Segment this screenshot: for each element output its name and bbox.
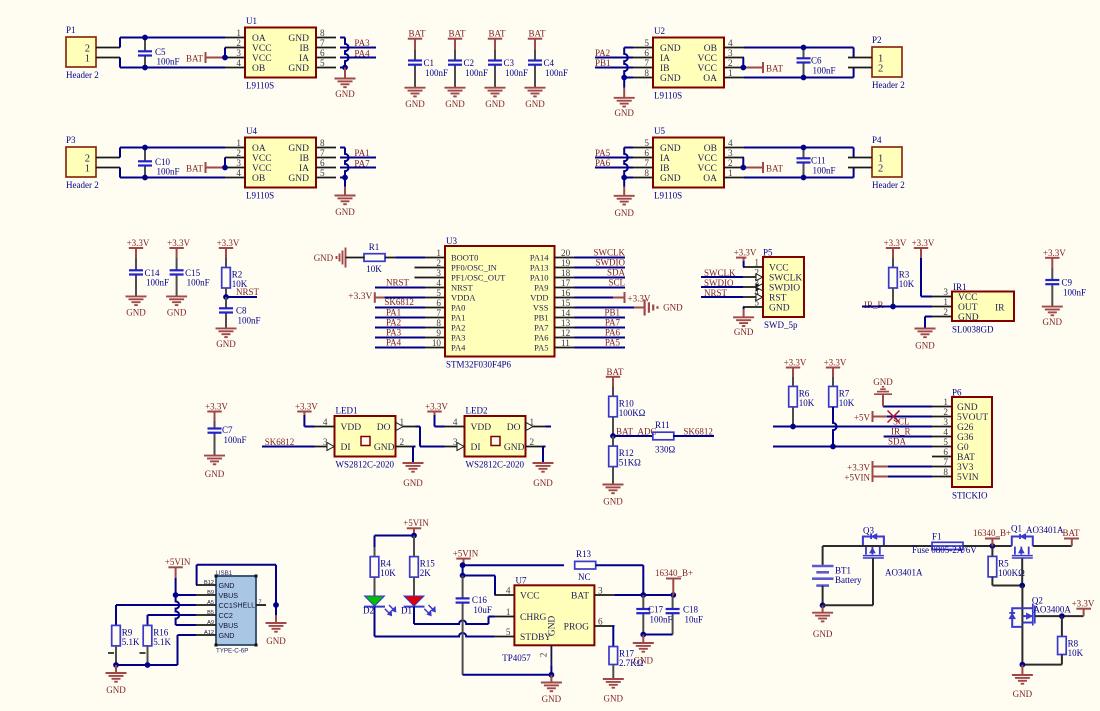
- svg-text:16: 16: [561, 288, 571, 298]
- svg-text:13: 13: [561, 318, 571, 328]
- svg-text:1: 1: [236, 138, 241, 148]
- svg-text:GND: GND: [660, 44, 681, 54]
- svg-text:5.1K: 5.1K: [122, 637, 140, 647]
- svg-text:NRST: NRST: [451, 283, 474, 293]
- svg-text:10K: 10K: [380, 568, 396, 578]
- svg-text:SDA: SDA: [888, 437, 907, 447]
- IC U5 L9110S: [633, 126, 744, 201]
- svg-text:G26: G26: [957, 423, 974, 433]
- svg-text:SL0038GD: SL0038GD: [952, 325, 994, 335]
- svg-text:GND: GND: [660, 74, 681, 84]
- svg-text:3: 3: [236, 48, 241, 58]
- svg-text:+5VIN: +5VIN: [403, 518, 429, 528]
- svg-text:PA2: PA2: [451, 323, 465, 333]
- connector P1 Header 2: [66, 25, 120, 80]
- svg-text:BAT: BAT: [766, 164, 784, 174]
- svg-text:4: 4: [728, 138, 733, 148]
- svg-text:VCC: VCC: [769, 264, 789, 274]
- svg-text:GND: GND: [335, 89, 355, 99]
- net label PA4: [340, 49, 376, 59]
- transistor Q1 AO3401A: [1011, 524, 1064, 559]
- junction: [621, 175, 627, 181]
- IC U3 STM32F030F4P6: [415, 236, 575, 370]
- svg-text:VDDA: VDDA: [451, 293, 476, 303]
- net label PA6: [595, 158, 633, 168]
- wire LED1 DO to LED2 DI: [416, 427, 445, 447]
- svg-text:100nF: 100nF: [187, 278, 210, 288]
- svg-text:SK6812: SK6812: [384, 297, 414, 307]
- svg-text:RST: RST: [769, 294, 787, 304]
- svg-text:4: 4: [436, 278, 441, 288]
- svg-text:BAT: BAT: [571, 592, 589, 602]
- svg-text:+3.3V: +3.3V: [425, 402, 448, 412]
- junction: [222, 165, 228, 171]
- svg-text:2: 2: [236, 38, 241, 48]
- ground C8: [216, 328, 237, 349]
- svg-text:2: 2: [943, 307, 948, 317]
- power +3.3V flag LED2: [425, 402, 448, 427]
- svg-text:10uF: 10uF: [473, 605, 492, 615]
- svg-text:U2: U2: [654, 26, 665, 36]
- IC U4 L9110S: [225, 126, 336, 201]
- no-erc dash R9: [108, 652, 114, 654]
- junction: [610, 433, 616, 439]
- svg-text:GND: GND: [873, 377, 893, 387]
- svg-text:IA: IA: [299, 164, 309, 174]
- ground C17 C18: [633, 635, 654, 666]
- svg-text:4: 4: [236, 168, 241, 178]
- svg-text:C3: C3: [504, 58, 515, 68]
- net label PA6 U3 right: [575, 328, 626, 338]
- IC U7 TP4057: [494, 576, 614, 666]
- svg-text:IR_R: IR_R: [891, 427, 911, 437]
- net label SDA U3: [575, 268, 626, 278]
- svg-text:1: 1: [728, 68, 733, 78]
- svg-text:R6: R6: [799, 388, 810, 398]
- svg-text:Q3: Q3: [863, 526, 874, 536]
- junction: [460, 573, 466, 579]
- svg-text:100nF: 100nF: [425, 68, 448, 78]
- svg-text:+3.3V: +3.3V: [912, 238, 935, 248]
- svg-text:BT1: BT1: [835, 566, 851, 576]
- svg-text:2: 2: [530, 437, 535, 447]
- ground C2: [445, 88, 466, 109]
- svg-text:BAT: BAT: [957, 453, 975, 463]
- svg-text:3V3: 3V3: [957, 463, 974, 473]
- power BAT flag C2: [448, 29, 466, 51]
- svg-text:IB: IB: [300, 154, 310, 164]
- capacitor C15: [170, 258, 210, 296]
- svg-text:GND: GND: [769, 304, 790, 314]
- svg-text:GND: GND: [288, 34, 309, 44]
- resistor R15: [410, 536, 436, 597]
- net label SCL U3: [575, 278, 626, 288]
- svg-text:A12: A12: [204, 630, 214, 636]
- svg-text:SDA: SDA: [607, 268, 626, 278]
- svg-text:100nF: 100nF: [465, 68, 488, 78]
- svg-text:+5VIN: +5VIN: [453, 549, 479, 559]
- transistor Q2 AO3400A: [1009, 586, 1071, 665]
- svg-text:PA6: PA6: [534, 333, 548, 343]
- svg-text:GND: GND: [915, 341, 935, 351]
- junction: [640, 632, 646, 638]
- svg-text:DO: DO: [377, 423, 391, 433]
- svg-text:IR1: IR1: [953, 282, 967, 292]
- svg-text:GND: GND: [445, 99, 465, 109]
- junction: [790, 424, 796, 430]
- wire +5VIN to R4: [375, 536, 415, 548]
- svg-text:SWCLK: SWCLK: [769, 274, 802, 284]
- resistor R3: [889, 258, 915, 307]
- svg-text:L9110S: L9110S: [654, 191, 682, 201]
- svg-text:7: 7: [320, 38, 325, 48]
- ground C1: [405, 88, 426, 109]
- svg-text:16340_B+: 16340_B+: [655, 568, 693, 578]
- svg-text:+3.3V: +3.3V: [167, 238, 190, 248]
- svg-text:R7: R7: [839, 388, 850, 398]
- power +3.3V flag R7: [824, 358, 847, 378]
- resistor R7: [829, 377, 855, 447]
- svg-text:+5VIN: +5VIN: [165, 557, 191, 567]
- svg-text:U4: U4: [246, 126, 257, 136]
- svg-text:G36: G36: [957, 433, 974, 443]
- svg-text:Header 2: Header 2: [66, 180, 99, 190]
- wire U7 pin2 to GND: [463, 665, 552, 675]
- svg-text:VCC: VCC: [252, 54, 272, 64]
- svg-text:6: 6: [436, 298, 441, 308]
- svg-text:SWDIO: SWDIO: [596, 258, 626, 268]
- wire Q2 gate to R8: [1035, 615, 1084, 617]
- svg-text:2: 2: [400, 437, 405, 447]
- capacitor C3: [488, 50, 528, 88]
- LED D2: [363, 596, 396, 616]
- power BAT flag U1: [186, 52, 225, 64]
- svg-text:1: 1: [943, 397, 948, 407]
- svg-text:L9110S: L9110S: [246, 191, 274, 201]
- svg-text:VCC: VCC: [252, 44, 272, 54]
- svg-text:5: 5: [644, 138, 649, 148]
- svg-text:100KΩ: 100KΩ: [998, 568, 1025, 578]
- net label PB1: [595, 58, 633, 68]
- svg-text:GND: GND: [485, 99, 505, 109]
- svg-text:4: 4: [236, 58, 241, 68]
- svg-text:100nF: 100nF: [505, 68, 528, 78]
- net label SWDIO P5: [701, 278, 743, 288]
- svg-text:PF0/OSC_IN: PF0/OSC_IN: [451, 263, 497, 273]
- ground C4: [525, 88, 546, 109]
- svg-text:4: 4: [943, 427, 948, 437]
- svg-text:C9: C9: [1062, 278, 1073, 288]
- net label SK6812 LED1: [262, 437, 315, 447]
- connector P4 Header 2: [848, 135, 905, 190]
- svg-text:BAT: BAT: [408, 29, 426, 39]
- svg-text:10K: 10K: [839, 398, 855, 408]
- wire U2 OB to P2: [744, 48, 854, 58]
- svg-text:GND: GND: [734, 327, 754, 337]
- svg-text:100nF: 100nF: [157, 167, 180, 177]
- svg-text:2: 2: [878, 63, 883, 74]
- svg-text:PA7: PA7: [534, 323, 548, 333]
- resistor R8: [1022, 616, 1083, 665]
- ground BT1: [812, 605, 833, 639]
- svg-text:100nF: 100nF: [157, 57, 180, 67]
- svg-text:5VIN: 5VIN: [957, 473, 979, 483]
- svg-text:GND: GND: [614, 208, 634, 218]
- junction: [740, 165, 746, 171]
- svg-text:8: 8: [644, 68, 649, 78]
- svg-text:GND: GND: [167, 308, 187, 318]
- power BAT flag C4: [528, 29, 546, 51]
- net label SK6812 U3: [375, 297, 425, 308]
- power +5VIN flag C16: [453, 549, 479, 566]
- svg-text:6: 6: [320, 158, 325, 168]
- junction: [411, 533, 417, 539]
- net label SK6812 R11: [683, 427, 713, 437]
- svg-text:1: 1: [436, 248, 441, 258]
- svg-text:NRST: NRST: [386, 278, 410, 288]
- net label SWDIO U3: [575, 258, 626, 268]
- net label SDA P6: [773, 437, 932, 447]
- svg-text:51KΩ: 51KΩ: [619, 458, 641, 468]
- svg-text:12: 12: [561, 328, 571, 338]
- svg-text:+3.3V: +3.3V: [628, 294, 651, 304]
- power +3.3V flag C7: [205, 402, 228, 422]
- junction: [142, 145, 148, 151]
- net label PA3: [340, 38, 376, 48]
- junction: [820, 602, 826, 608]
- ground flag R1: [314, 248, 365, 268]
- capacitor C5: [138, 38, 180, 68]
- svg-text:R12: R12: [619, 448, 634, 458]
- svg-text:5: 5: [644, 38, 649, 48]
- connector P3 Header 2: [66, 135, 120, 190]
- wire U1 pin5: [340, 67, 345, 69]
- svg-text:SHELL: SHELL: [233, 603, 255, 610]
- svg-text:5: 5: [506, 627, 511, 637]
- battery BT1: [812, 546, 862, 605]
- connector P2 Header 2: [848, 35, 905, 90]
- svg-text:+3.3V: +3.3V: [1043, 248, 1066, 258]
- transistor Q3 AO3401A: [863, 526, 923, 578]
- svg-text:20: 20: [561, 248, 571, 258]
- capacitor C17: [636, 595, 672, 635]
- svg-text:TYPE-C-6P: TYPE-C-6P: [216, 648, 248, 655]
- svg-text:10K: 10K: [799, 398, 815, 408]
- wire U4 pin8 to pin5: [340, 148, 349, 178]
- svg-text:Q1: Q1: [1011, 524, 1022, 534]
- resistor R2: [222, 258, 248, 297]
- svg-text:BAT: BAT: [528, 29, 546, 39]
- svg-text:C5: C5: [155, 47, 166, 57]
- power 16340_B+ flag Q1: [973, 528, 1011, 546]
- svg-text:GND: GND: [660, 144, 681, 154]
- svg-text:2: 2: [436, 258, 441, 268]
- svg-text:NRST: NRST: [236, 287, 260, 297]
- wire LED2 GND: [543, 447, 546, 464]
- capacitor C7: [208, 421, 247, 456]
- net label NRST U3: [375, 278, 425, 288]
- svg-text:GND: GND: [1043, 317, 1063, 327]
- svg-text:7: 7: [644, 58, 649, 68]
- junction: [342, 175, 348, 181]
- svg-text:OB: OB: [252, 174, 265, 184]
- svg-text:+3.3V: +3.3V: [734, 248, 757, 258]
- svg-text:VBUS: VBUS: [219, 591, 239, 600]
- wire P5 GND: [742, 307, 745, 309]
- power BAT flag R10: [606, 367, 624, 387]
- power +3.3V flag LED1: [295, 402, 318, 427]
- svg-text:STICKIO: STICKIO: [952, 491, 988, 501]
- wire Q1 gate: [1021, 558, 1023, 585]
- svg-text:PF1/OSC_OUT: PF1/OSC_OUT: [451, 273, 506, 283]
- svg-text:C14: C14: [145, 268, 161, 278]
- ground LED1: [403, 463, 424, 488]
- junction: [1059, 613, 1065, 619]
- power +3.3V flag C15: [167, 238, 190, 258]
- svg-text:VCC: VCC: [697, 64, 717, 74]
- svg-text:PA1: PA1: [451, 313, 465, 323]
- svg-text:5: 5: [320, 58, 325, 68]
- svg-text:TP4057: TP4057: [502, 653, 531, 663]
- net label NRST: [226, 287, 260, 297]
- svg-text:B12: B12: [204, 580, 214, 586]
- wire U4 pin5: [340, 177, 345, 179]
- svg-text:GND: GND: [205, 469, 225, 479]
- wire U2 OA to P2: [744, 68, 854, 78]
- power +3.3V flag R6: [784, 358, 807, 378]
- svg-text:OB: OB: [704, 144, 717, 154]
- wire fuse to Q1: [963, 545, 1012, 547]
- svg-text:GND: GND: [314, 253, 334, 263]
- svg-text:1: 1: [754, 258, 759, 268]
- junction: [890, 304, 896, 310]
- svg-text:PA3: PA3: [386, 328, 402, 338]
- svg-text:+3.3V: +3.3V: [784, 358, 807, 368]
- svg-text:GND: GND: [288, 174, 309, 184]
- svg-text:PA0: PA0: [451, 303, 465, 313]
- svg-text:IA: IA: [660, 54, 670, 64]
- svg-text:GND: GND: [219, 631, 235, 640]
- svg-text:GND: GND: [288, 64, 309, 74]
- svg-text:BAT: BAT: [186, 164, 204, 174]
- net label SCL P6: [773, 417, 932, 427]
- svg-text:5: 5: [943, 437, 948, 447]
- net label PA2 U3: [375, 318, 425, 328]
- svg-text:6: 6: [644, 48, 649, 58]
- svg-text:Header 2: Header 2: [872, 180, 905, 190]
- ground C3: [485, 88, 506, 109]
- wire U5 pins 2-3: [742, 158, 744, 168]
- svg-text:VCC: VCC: [697, 54, 717, 64]
- svg-text:C1: C1: [424, 58, 435, 68]
- svg-text:+3.3V: +3.3V: [1072, 599, 1095, 609]
- junction: [342, 65, 348, 71]
- svg-text:B9: B9: [207, 590, 214, 596]
- svg-text:Battery: Battery: [835, 575, 862, 585]
- wire battery to fuse: [823, 545, 932, 547]
- power BAT flag U4: [186, 162, 225, 174]
- power +3.3V flag C9: [1043, 248, 1066, 268]
- svg-text:2: 2: [878, 163, 883, 174]
- svg-text:VDD: VDD: [341, 423, 362, 433]
- net label PA4 U3: [375, 338, 425, 348]
- svg-text:C7: C7: [222, 425, 233, 435]
- junction: [113, 662, 119, 668]
- svg-text:VBUS: VBUS: [219, 621, 239, 630]
- svg-text:9: 9: [436, 328, 441, 338]
- svg-text:2: 2: [539, 652, 549, 657]
- capacitor C14: [129, 258, 169, 296]
- svg-text:OB: OB: [252, 64, 265, 74]
- svg-text:8: 8: [943, 467, 948, 477]
- svg-text:1: 1: [943, 297, 948, 307]
- junction: [640, 592, 646, 598]
- svg-text:PROG: PROG: [564, 623, 589, 633]
- svg-text:3: 3: [728, 48, 733, 58]
- power BAT flag Q1: [1062, 528, 1080, 546]
- svg-text:15: 15: [561, 298, 571, 308]
- svg-text:GND: GND: [604, 694, 624, 704]
- svg-text:OUT: OUT: [958, 303, 978, 313]
- resistor R12: [609, 436, 641, 485]
- junction: [621, 75, 627, 81]
- svg-text:4: 4: [728, 38, 733, 48]
- svg-text:100nF: 100nF: [545, 68, 568, 78]
- svg-text:IR: IR: [995, 304, 1005, 314]
- svg-text:PA14: PA14: [530, 253, 549, 263]
- svg-text:6: 6: [644, 148, 649, 158]
- svg-text:VCC: VCC: [697, 154, 717, 164]
- svg-text:SWD_5p: SWD_5p: [764, 320, 798, 330]
- fuse F1: [912, 532, 977, 555]
- svg-text:C16: C16: [472, 595, 488, 605]
- svg-text:D1: D1: [401, 606, 412, 616]
- resistor R1: [364, 242, 385, 274]
- svg-text:P2: P2: [872, 35, 882, 45]
- svg-text:100nF: 100nF: [224, 435, 247, 445]
- svg-text:+3.3V: +3.3V: [847, 463, 870, 473]
- wire LED1 GND: [413, 447, 416, 464]
- ground U7: [541, 675, 562, 704]
- ground U4: [335, 178, 356, 218]
- svg-text:5: 5: [436, 288, 441, 298]
- resistor R11: [613, 420, 714, 455]
- svg-text:VCC: VCC: [252, 164, 272, 174]
- svg-text:GND: GND: [548, 616, 558, 637]
- capacitor C2: [448, 50, 488, 88]
- svg-text:11: 11: [561, 338, 570, 348]
- net label SWCLK U3: [575, 248, 626, 258]
- wire CC2 to R16: [148, 615, 197, 625]
- svg-text:R13: R13: [576, 549, 592, 559]
- svg-text:2K: 2K: [420, 568, 432, 578]
- svg-text:CC1: CC1: [219, 601, 233, 610]
- svg-text:P6: P6: [952, 388, 962, 398]
- svg-text:10K: 10K: [899, 279, 915, 289]
- ground USB shell: [266, 605, 287, 646]
- svg-text:OA: OA: [252, 144, 266, 154]
- svg-text:IA: IA: [660, 154, 670, 164]
- ground R12: [603, 485, 624, 507]
- junction: [801, 45, 807, 51]
- net label PA2: [595, 48, 633, 58]
- wire U2 pin5 to pin8: [624, 48, 633, 78]
- svg-text:SCL: SCL: [893, 417, 910, 427]
- svg-text:Header 2: Header 2: [66, 70, 99, 80]
- svg-text:2: 2: [236, 148, 241, 158]
- svg-text:BAT: BAT: [766, 64, 784, 74]
- svg-text:C18: C18: [683, 605, 699, 615]
